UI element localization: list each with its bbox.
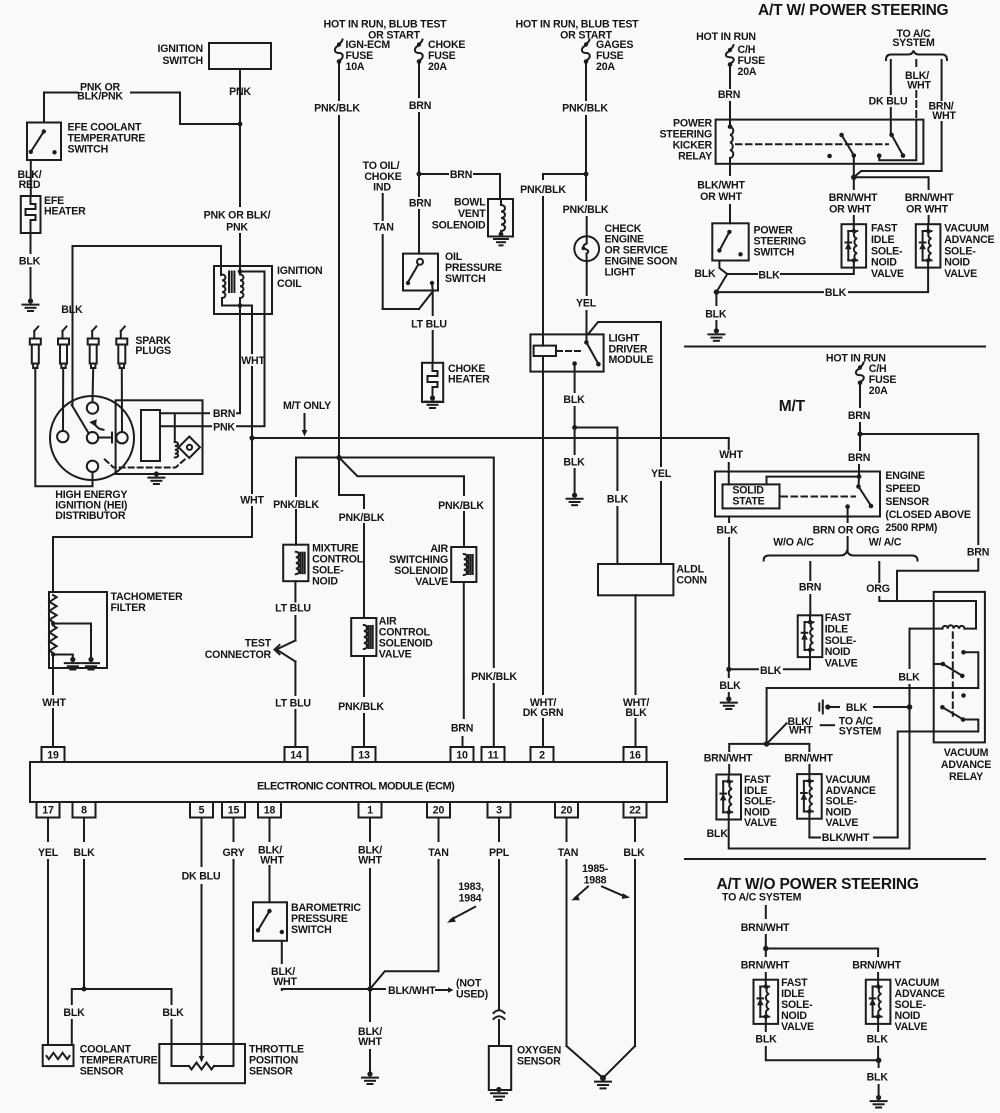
coolant temperature sensor: [43, 1045, 74, 1066]
wire solid state to switch: [767, 477, 860, 485]
sensor switch: [858, 477, 861, 487]
svg-text:M/T: M/T: [779, 398, 806, 415]
svg-text:BLK: BLK: [61, 304, 83, 316]
wire BRN to oil pressure switch: [418, 174, 420, 196]
wire BRN/WHT to vacuum advance (bottom): [877, 949, 879, 957]
svg-text:HOT IN RUN: HOT IN RUN: [696, 31, 756, 43]
wire YEL pin 17: [47, 818, 49, 842]
svg-text:NOID: NOID: [871, 257, 897, 269]
svg-text:TAN: TAN: [373, 222, 393, 234]
ignition switch: [209, 43, 271, 69]
svg-text:BLK: BLK: [63, 1007, 85, 1019]
svg-text:PNK/BLK: PNK/BLK: [562, 103, 608, 115]
svg-text:SYSTEM: SYSTEM: [839, 726, 882, 738]
wire BRN from choke fuse: [418, 63, 420, 97]
svg-text:VACUUM: VACUUM: [944, 747, 989, 759]
svg-text:SENSOR: SENSOR: [517, 1056, 561, 1068]
svg-text:BLK: BLK: [625, 707, 647, 719]
wire BRN/WHT to junction: [854, 171, 942, 177]
ground tach filter B: [88, 657, 93, 662]
svg-text:IND: IND: [373, 182, 391, 194]
svg-text:IGNITION: IGNITION: [277, 265, 322, 277]
spark plug 4: [120, 331, 122, 339]
ECM pin 11 (top): [482, 747, 505, 762]
wire BLK/WHT up to vacuum advance valve: [808, 819, 810, 838]
svg-text:LT BLU: LT BLU: [275, 698, 311, 710]
svg-text:BRN: BRN: [848, 452, 870, 464]
ECM pin 2 (top): [531, 747, 554, 762]
svg-text:BRN: BRN: [409, 198, 431, 210]
node junction PNK/BLK distribution: [336, 455, 341, 460]
distributor terminal right: [116, 432, 127, 443]
wire BLK/RED: [30, 160, 32, 196]
svg-text:2500 RPM): 2500 RPM): [885, 522, 937, 534]
wire BLK from module: [574, 364, 576, 392]
tachometer filter box: [49, 592, 107, 668]
svg-text:MODULE: MODULE: [609, 354, 654, 366]
svg-text:1984: 1984: [459, 893, 482, 905]
svg-text:WHT: WHT: [240, 495, 264, 507]
svg-text:2: 2: [539, 750, 545, 762]
svg-text:A/T W/ POWER STEERING: A/T W/ POWER STEERING: [758, 2, 949, 19]
relay switch 2: [889, 133, 894, 138]
svg-text:SWITCH: SWITCH: [445, 273, 486, 285]
pickup pole piece diamond: [179, 437, 200, 459]
svg-text:TEST: TEST: [245, 638, 272, 650]
sensor dashed link: [782, 496, 856, 498]
svg-text:VALVE: VALVE: [826, 817, 859, 829]
wire spark plug 1 to distributor: [35, 368, 92, 486]
wire BLK down to valves: [729, 707, 910, 849]
engine speed sensor box: [715, 472, 880, 517]
wire BLK coil primary to distributor: [73, 246, 222, 406]
svg-text:BLK: BLK: [162, 1007, 184, 1019]
wire PNK/BLK to air switching valve: [339, 458, 464, 496]
svg-text:NOID: NOID: [825, 646, 851, 658]
separator line 1: [685, 346, 985, 348]
wire PNK/BLK to check engine light: [585, 174, 587, 200]
svg-text:ADVANCE: ADVANCE: [941, 759, 991, 771]
check engine light bulb: [574, 236, 599, 261]
ground bowl vent: [494, 238, 508, 240]
wire YEL module to ALDL: [588, 322, 661, 466]
ground distributor: [154, 471, 159, 476]
svg-text:BLK: BLK: [867, 1072, 889, 1084]
ECM pin 20 (bottom 6): [427, 802, 450, 818]
svg-text:20A: 20A: [738, 66, 757, 78]
EFE coolant temperature switch: [27, 123, 61, 161]
wire PNK OR BLK/PNK to coil: [239, 124, 241, 206]
relay dashed actuator (vacuum advance): [952, 632, 954, 715]
fast idle solenoid valve (M/T upper): [798, 615, 823, 657]
distributor terminal top: [87, 402, 98, 413]
wire TAN pin 20 (1985-88): [566, 818, 568, 842]
svg-text:A/T W/O POWER STEERING: A/T W/O POWER STEERING: [717, 876, 919, 893]
wire BRN/WHT to vacuum advance valve: [854, 177, 929, 189]
wire BLK to fast idle valve: [727, 273, 757, 275]
svg-text:FAST: FAST: [825, 612, 852, 624]
relay switch 2 (vacuum advance): [940, 705, 945, 710]
wire BLK/WHT dashed: [915, 60, 917, 69]
wire PNK/BLK from IGN-ECM fuse: [338, 63, 340, 100]
svg-text:SWITCH: SWITCH: [754, 247, 795, 259]
wire BLK to ground: [574, 428, 576, 455]
svg-text:PNK: PNK: [229, 86, 251, 98]
svg-text:BLK: BLK: [898, 672, 920, 684]
svg-text:BLK/PNK: BLK/PNK: [77, 91, 123, 103]
wire TAN pin 20 (1983-84): [438, 818, 440, 842]
node junction BLK sensor: [726, 667, 731, 672]
wire BLK from EFE heater: [30, 233, 32, 253]
svg-text:RELAY: RELAY: [678, 151, 712, 163]
svg-text:3: 3: [496, 805, 502, 817]
ground bottom: [876, 1095, 881, 1100]
wire ORG to relay coil: [878, 562, 880, 582]
ECM pin 1 (bottom 5): [359, 802, 382, 818]
svg-text:15: 15: [228, 805, 240, 817]
svg-text:PNK/BLK: PNK/BLK: [563, 204, 609, 216]
TPS resistor: [189, 1063, 214, 1070]
ECM pin 22 (bottom 9): [624, 802, 647, 818]
svg-text:CONNECTOR: CONNECTOR: [205, 649, 272, 661]
node junction BLK/WHT: [367, 986, 372, 991]
wire PNK coil to HEI module: [237, 272, 265, 427]
wire BLK/WHT into relay: [879, 120, 916, 160]
wire PNK OR BLK/PNK to EFE switch: [131, 93, 240, 125]
svg-text:1983,: 1983,: [458, 881, 484, 893]
wire NC contact loop: [767, 652, 979, 744]
wire BLK with connector: [828, 706, 839, 708]
distributor rotation arrow: [95, 423, 104, 430]
svg-text:GRY: GRY: [223, 847, 245, 859]
svg-text:PNK/BLK: PNK/BLK: [438, 500, 484, 512]
svg-text:20A: 20A: [596, 61, 615, 73]
svg-text:BRN/WHT: BRN/WHT: [741, 922, 790, 934]
ECM pin 18 (bottom 4): [258, 802, 281, 818]
dash to A/C: [821, 724, 834, 726]
relay switch 1: [839, 133, 844, 138]
distributor terminal center: [87, 432, 98, 443]
svg-text:PNK/BLK: PNK/BLK: [520, 184, 566, 196]
svg-text:SWITCH: SWITCH: [291, 924, 332, 936]
svg-text:OR WHT: OR WHT: [700, 191, 742, 203]
svg-text:BLK/WHT: BLK/WHT: [388, 985, 436, 997]
distributor terminal bottom: [87, 461, 98, 472]
wire spark plug 4 to distributor: [121, 368, 123, 432]
svg-text:PNK/BLK: PNK/BLK: [338, 701, 384, 713]
vacuum advance solenoid valve (M/T): [797, 774, 822, 819]
fuse C/H 20A (M/T): [858, 365, 862, 369]
solid state box: [723, 484, 780, 508]
svg-text:14: 14: [290, 750, 302, 762]
svg-text:PPL: PPL: [489, 847, 510, 859]
node BRN terminal: [857, 474, 862, 479]
throttle position sensor box: [159, 1044, 245, 1083]
svg-text:IDLE: IDLE: [871, 234, 894, 246]
relay switch 1 (vacuum advance): [934, 663, 943, 665]
wire PNK/BLK to pin 11: [339, 458, 494, 668]
ECM pin 20 (bottom 8): [555, 802, 578, 818]
svg-text:5: 5: [199, 805, 205, 817]
svg-text:VALVE: VALVE: [825, 658, 858, 670]
wire BRN/WHT right: [941, 60, 943, 100]
svg-text:BLK: BLK: [607, 494, 629, 506]
svg-text:SWITCH: SWITCH: [162, 55, 203, 67]
svg-text:SENSOR: SENSOR: [80, 1066, 124, 1078]
wire PNK from ignition switch: [239, 69, 241, 124]
node junction BLK sensors: [82, 987, 87, 992]
dashed link rotor to pole piece: [105, 458, 186, 467]
svg-text:VACUUM: VACUUM: [944, 223, 989, 235]
wire switch2 to BLK/WHT: [874, 720, 978, 838]
node junction BLK (bottom): [876, 1058, 882, 1064]
svg-text:SENSOR: SENSOR: [885, 496, 929, 508]
spark plug 3: [91, 331, 93, 339]
svg-text:WHT: WHT: [719, 449, 743, 461]
svg-text:BLK: BLK: [623, 847, 645, 859]
svg-text:BRN: BRN: [799, 582, 821, 594]
svg-text:STATE: STATE: [732, 496, 764, 508]
svg-text:BLK: BLK: [19, 256, 41, 268]
wire BRN from M/T fuse: [859, 384, 861, 407]
ECM pin 15 (bottom 3): [222, 802, 245, 818]
svg-text:PNK/BLK: PNK/BLK: [273, 499, 319, 511]
svg-text:BOWL: BOWL: [454, 197, 486, 209]
node junction WHT / M-T line: [249, 435, 254, 440]
svg-text:SPEED: SPEED: [885, 483, 920, 495]
air switching solenoid valve: [451, 547, 476, 582]
wire BRN to vacuum advance relay: [860, 434, 978, 544]
svg-text:HEATER: HEATER: [44, 206, 86, 218]
wire BRN coil to HEI module: [237, 306, 240, 414]
wire PNK/BLK to light driver module: [543, 174, 586, 179]
wire BLK/WHT not used stub: [370, 988, 385, 990]
oxygen sensor: [489, 1046, 511, 1090]
wire BLK coil return: [909, 629, 911, 668]
dashed link module: [557, 350, 583, 352]
svg-text:ORG: ORG: [866, 583, 890, 595]
light driver module: [530, 334, 603, 371]
ALDL connector: [598, 564, 673, 595]
node junction PNK/BLK gages: [584, 172, 589, 177]
wire BLK from fast idle valve: [784, 657, 810, 669]
oil pressure switch: [403, 254, 438, 291]
svg-text:BRN/WHT: BRN/WHT: [784, 753, 833, 765]
spark plug 1: [33, 331, 35, 339]
svg-text:BRN: BRN: [450, 169, 472, 181]
ECM pin 17 (bottom 0): [37, 802, 60, 818]
svg-text:1988: 1988: [584, 875, 607, 887]
ECM pin 8 (bottom 1): [73, 802, 96, 818]
svg-text:LIGHT: LIGHT: [605, 266, 637, 278]
svg-text:DISTRIBUTOR: DISTRIBUTOR: [55, 510, 126, 522]
fuse IGN-ECM 10A: [337, 42, 341, 46]
svg-text:PNK: PNK: [213, 421, 235, 433]
wire BRN from fuse: [729, 66, 731, 88]
wire TAN: [382, 194, 384, 220]
wire tap1 to ground: [53, 624, 91, 659]
wire M/T line: [252, 437, 729, 439]
wire BRN/WHT split: [766, 948, 878, 950]
svg-text:BRN/WHT: BRN/WHT: [704, 753, 753, 765]
svg-text:PNK: PNK: [226, 222, 248, 234]
svg-text:BLK: BLK: [719, 680, 741, 692]
relay coil (vacuum advance): [942, 625, 964, 628]
svg-text:BLK: BLK: [563, 457, 585, 469]
fuse C/H 20A (A/T): [728, 48, 732, 52]
choke heater: [422, 363, 443, 402]
light driver module coil: [534, 346, 556, 356]
svg-text:W/ A/C: W/ A/C: [869, 537, 902, 549]
ground choke heater: [430, 395, 435, 400]
svg-text:SYSTEM: SYSTEM: [892, 37, 935, 49]
svg-text:ELECTRONIC CONTROL MODULE (ECM: ELECTRONIC CONTROL MODULE (ECM): [257, 781, 455, 793]
svg-text:11: 11: [488, 750, 499, 762]
svg-text:LT BLU: LT BLU: [411, 319, 447, 331]
wire LT BLU to choke heater: [431, 283, 434, 291]
tachometer filter resistor 2: [49, 626, 56, 654]
mixture control solenoid: [283, 545, 308, 582]
svg-text:PNK/BLK: PNK/BLK: [314, 103, 360, 115]
wire BLK to ground: [728, 669, 730, 677]
fuse CHOKE 20A: [417, 42, 421, 46]
svg-text:M/T ONLY: M/T ONLY: [283, 400, 331, 412]
wire BLK/WHT pin 1: [369, 818, 371, 842]
HEI module: [141, 410, 160, 461]
distributor rotor arm: [72, 405, 89, 434]
svg-text:BLK/WHT: BLK/WHT: [822, 832, 870, 844]
ignition coil: [214, 266, 272, 314]
svg-text:DK GRN: DK GRN: [523, 707, 564, 719]
wire switch1 to junction: [853, 156, 855, 178]
wire BLK/WHT OR WHT from relay: [729, 164, 731, 175]
svg-text:RELAY: RELAY: [949, 771, 983, 783]
node junction BRN/WHT: [851, 175, 857, 181]
svg-text:VALVE: VALVE: [944, 268, 977, 280]
svg-text:LT BLU: LT BLU: [275, 603, 311, 615]
svg-text:(CLOSED ABOVE: (CLOSED ABOVE: [885, 509, 970, 521]
ignition coil primary winding: [222, 275, 225, 299]
ground EFE heater: [28, 298, 33, 303]
svg-text:WHT: WHT: [789, 725, 813, 737]
fast idle solenoid valve (A/T): [842, 224, 867, 267]
test connector kink: [277, 641, 296, 662]
wire BRN/WHT to fast idle (bottom): [765, 949, 767, 957]
svg-text:BRN/WHT: BRN/WHT: [905, 192, 954, 204]
node junction BLK: [572, 425, 577, 430]
wire WHT/BLK ALDL to pin 16: [635, 595, 637, 694]
svg-text:BLK: BLK: [755, 1034, 777, 1046]
svg-text:BRN OR ORG: BRN OR ORG: [813, 525, 880, 537]
ECM pin 5 (bottom 2): [190, 802, 213, 818]
svg-text:BLK: BLK: [705, 309, 727, 321]
svg-text:1: 1: [367, 805, 373, 817]
node junction BRN/WHT (bottom): [763, 946, 768, 951]
vacuum advance solenoid valve (A/T): [916, 224, 941, 267]
node junction BRN M/T: [857, 431, 862, 436]
ignition coil core: [228, 272, 230, 293]
svg-text:WHT: WHT: [358, 1036, 382, 1048]
HEI distributor housing box: [116, 400, 203, 474]
wire BLK to ALDL: [575, 428, 618, 491]
svg-text:NOID: NOID: [312, 576, 338, 588]
node module BLK terminal: [572, 361, 577, 366]
svg-text:VALVE: VALVE: [415, 576, 448, 588]
wire BLK to coolant sensor: [72, 989, 84, 1004]
svg-text:19: 19: [47, 750, 59, 762]
svg-text:20A: 20A: [869, 385, 888, 397]
svg-text:WHT: WHT: [932, 110, 956, 122]
connector stub BLK: [825, 704, 830, 709]
wire PNK/BLK to mixture solenoid: [296, 458, 339, 497]
svg-text:FILTER: FILTER: [111, 602, 147, 614]
node junction BRN: [417, 172, 422, 177]
node junction BLK: [714, 289, 719, 294]
svg-text:10: 10: [456, 750, 468, 762]
svg-text:DK BLU: DK BLU: [869, 96, 908, 108]
vacuum advance relay box: [934, 592, 985, 743]
svg-text:BRN: BRN: [718, 89, 740, 101]
svg-text:20A: 20A: [428, 61, 447, 73]
wire BLK from vacuum advance (bottom): [877, 1024, 879, 1031]
relay coil: [728, 124, 733, 129]
ECM pin 16 (top): [624, 747, 647, 762]
wire WHT from M/T line: [728, 438, 730, 449]
fuse GAGES 20A: [584, 42, 588, 46]
svg-text:1985-: 1985-: [582, 863, 609, 875]
svg-text:BLK: BLK: [563, 394, 585, 406]
svg-text:BLK: BLK: [707, 828, 729, 840]
brace options: [764, 551, 918, 561]
wire PNK/BLK to air control solenoid: [339, 458, 364, 509]
svg-text:VALVE: VALVE: [379, 649, 412, 661]
wire BLK from fast idle (bottom): [765, 1024, 767, 1031]
svg-text:SOLENOID: SOLENOID: [432, 220, 486, 232]
svg-text:16: 16: [629, 750, 641, 762]
power steering switch: [712, 223, 748, 260]
svg-text:HEATER: HEATER: [448, 374, 490, 386]
svg-text:BLK/WHT: BLK/WHT: [697, 180, 745, 192]
svg-text:BLK: BLK: [694, 268, 716, 280]
distributor terminal left: [57, 431, 68, 442]
arrow 1983-84: [451, 907, 475, 920]
wire PPL pin 3: [498, 818, 500, 842]
arrow M/T only: [304, 414, 306, 431]
node junction BRN/WHT (M/T): [764, 741, 770, 747]
barometric pressure switch: [253, 902, 287, 941]
svg-text:13: 13: [358, 750, 370, 762]
svg-text:BRN: BRN: [409, 100, 431, 112]
wire LT BLU to pin 14: [294, 662, 296, 696]
svg-text:SOLE-: SOLE-: [871, 245, 903, 257]
node coil TACH terminal: [238, 303, 243, 308]
svg-text:USED): USED): [456, 989, 488, 1001]
svg-text:VALVE: VALVE: [871, 268, 904, 280]
svg-text:8: 8: [81, 805, 87, 817]
wire tap2 to ground: [53, 655, 73, 659]
svg-text:18: 18: [264, 805, 276, 817]
svg-text:IDLE: IDLE: [825, 623, 848, 635]
ECM box: [30, 762, 667, 802]
wire BLK/WHT diagonal label: [767, 723, 787, 744]
wire BLK to TPS: [84, 989, 172, 1004]
ground 1985-88: [595, 1081, 611, 1083]
svg-text:CONN: CONN: [676, 575, 706, 587]
wire BRN to fast idle valve (M/T): [809, 562, 811, 580]
fast idle solenoid valve (bottom): [754, 980, 779, 1024]
node tach filter tap 1: [51, 621, 55, 625]
svg-text:BLK: BLK: [73, 847, 95, 859]
